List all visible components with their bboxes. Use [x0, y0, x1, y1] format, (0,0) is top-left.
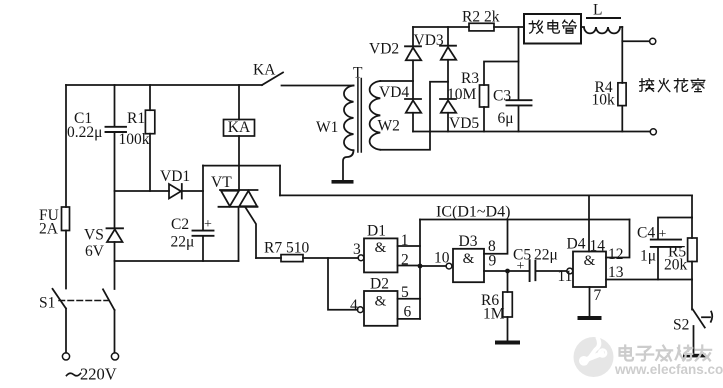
svg-text:+: +: [517, 259, 525, 274]
diode VD1 triangle: [169, 184, 181, 199]
S1 link dashed: [59, 300, 108, 302]
wire R7 to pin3: [303, 257, 358, 259]
wire triac cathode down: [238, 207, 240, 261]
wire KA coil top: [238, 85, 240, 120]
wire pin14: [588, 195, 590, 251]
wire pin9: [484, 270, 508, 272]
svg-text:7: 7: [594, 287, 602, 304]
wire to S2: [691, 280, 693, 310]
svg-text:6: 6: [404, 303, 412, 320]
capacitor C4 plates: [651, 240, 681, 247]
zener VS bar: [107, 227, 124, 229]
diode VD2 triangle: [406, 48, 421, 61]
svg-text:D4: D4: [567, 236, 586, 253]
junction dot pin2: [418, 264, 423, 269]
bubble pin11: [567, 268, 573, 274]
svg-text:L: L: [593, 2, 602, 19]
ground pin7 bar: [578, 316, 602, 320]
switch S2 blade: [693, 310, 705, 328]
winding W2: [370, 81, 381, 150]
svg-text:T: T: [353, 65, 363, 82]
diode VD5 triangle: [441, 100, 456, 112]
wire IC rail: [420, 219, 630, 221]
svg-text:R7 510: R7 510: [264, 240, 309, 257]
svg-text:VD5: VD5: [449, 115, 479, 132]
bubble pin3: [358, 255, 364, 261]
svg-text:www.elecfans.com: www.elecfans.com: [614, 362, 723, 377]
svg-text:&: &: [375, 240, 387, 256]
switch S2 tick: [702, 312, 712, 322]
svg-text:9: 9: [489, 253, 497, 270]
diode VD4 triangle: [406, 100, 421, 112]
wire R5 bottom: [691, 262, 693, 280]
wire VD2-VD4: [412, 60, 414, 99]
capacitor C1 plates: [106, 127, 127, 132]
inductor L core bar: [587, 17, 620, 19]
bubble pin10: [446, 263, 452, 269]
wire S2 bottom: [693, 326, 695, 354]
terminal circle output bottom: [650, 129, 656, 135]
svg-text:1M: 1M: [483, 306, 505, 323]
wire W2 top to bridge: [380, 80, 413, 82]
svg-text:VD1: VD1: [160, 168, 190, 185]
gate D2 box: [364, 291, 398, 326]
svg-text:KA: KA: [253, 62, 276, 79]
wire gate bracket vertical: [419, 220, 421, 319]
diode VD5 bar: [440, 98, 456, 100]
wire L to R4 column: [621, 27, 623, 83]
svg-text:14: 14: [590, 238, 606, 255]
svg-text:12: 12: [608, 246, 624, 263]
wire C2 bottom: [202, 236, 204, 261]
svg-text:11: 11: [558, 268, 573, 285]
diode VD3 bar: [440, 45, 456, 47]
svg-text:VD3: VD3: [414, 32, 444, 49]
resistor R2 body: [469, 23, 494, 31]
wire long supply rail: [280, 194, 692, 196]
bubble pin4: [357, 307, 363, 313]
wire R4 bottom: [621, 106, 623, 132]
svg-text:D1: D1: [367, 223, 386, 240]
switch S1 left blade: [53, 289, 67, 309]
discharge tube box: [524, 14, 581, 44]
transformer T core: [358, 79, 361, 153]
wire S1 left bottom: [65, 309, 67, 353]
wire right drop to long rail: [279, 166, 281, 196]
wire pin1 stub: [398, 245, 421, 247]
wire R1 column top: [149, 85, 151, 110]
svg-text:1μ: 1μ: [640, 248, 656, 265]
wire to C5: [508, 270, 530, 272]
svg-text:22μ: 22μ: [171, 234, 195, 251]
wire triac gate: [246, 208, 257, 259]
wire bridge left column: [412, 27, 414, 46]
svg-text:R1: R1: [127, 110, 145, 127]
diode VD2 bar: [405, 45, 421, 47]
resistor R4 body: [618, 83, 626, 106]
svg-text:10k: 10k: [592, 92, 616, 109]
svg-text:C4: C4: [637, 225, 655, 242]
wire C1 to VD1 line: [114, 132, 116, 228]
fuse FU1 body: [62, 207, 70, 231]
wire pin5 stub: [398, 298, 421, 300]
CJK: discharge tube 放电管: [529, 21, 542, 34]
svg-text:VD4: VD4: [379, 84, 409, 101]
diode VD4 bar: [405, 98, 421, 100]
svg-text:S1: S1: [39, 295, 55, 312]
wire bridge right column: [447, 27, 449, 46]
svg-text:&: &: [463, 251, 475, 267]
svg-text:S2: S2: [673, 317, 689, 334]
wire junction down to pin4: [328, 258, 358, 310]
capacitor C2 plates: [193, 231, 214, 236]
wire KA contact right: [282, 85, 354, 87]
svg-text:100k: 100k: [119, 131, 150, 148]
switch KA blade: [262, 73, 283, 86]
svg-text:R3: R3: [461, 70, 479, 87]
wire W2 bottom to bridge: [380, 82, 448, 150]
svg-text:5: 5: [401, 284, 409, 301]
svg-text:10: 10: [434, 250, 450, 267]
gate D1 box: [364, 238, 398, 272]
wire VD3-VD5: [447, 60, 449, 99]
wire VT top horizontal: [203, 165, 280, 167]
capacitor C3 plates: [507, 100, 532, 105]
capacitor C5 plates: [530, 260, 536, 281]
resistor R1 body: [145, 110, 154, 134]
svg-text:13: 13: [608, 264, 624, 281]
wire R3 top link: [484, 62, 519, 86]
relay coil KA box: [224, 120, 255, 137]
svg-text:6μ: 6μ: [498, 110, 514, 127]
wire VD5 to bottom rail: [447, 113, 449, 132]
svg-text:VS: VS: [84, 227, 104, 244]
wire gate to R7: [256, 257, 281, 259]
svg-text:W2: W2: [378, 118, 400, 135]
wire VT left column: [202, 166, 204, 231]
wire R6 bottom: [507, 317, 509, 341]
switch S1 right blade: [103, 289, 115, 310]
resistor R5 body: [688, 238, 697, 262]
triac VT right triangle: [239, 191, 257, 206]
CJK: connect spark plug 接火花塞: [640, 79, 654, 91]
diode VD1 bar: [181, 184, 183, 199]
gate D3 box: [453, 249, 484, 282]
svg-text:IC(D1~D4): IC(D1~D4): [436, 204, 510, 221]
svg-text:R2 2k: R2 2k: [462, 9, 500, 26]
svg-text:2: 2: [401, 252, 409, 269]
svg-text:C2: C2: [171, 216, 189, 233]
svg-text:220V: 220V: [80, 365, 117, 384]
svg-text:VT: VT: [211, 174, 232, 191]
svg-text:C3: C3: [493, 88, 511, 105]
wire pin12: [606, 220, 630, 258]
wire R3 bottom: [483, 107, 485, 132]
svg-text:20k: 20k: [664, 257, 688, 274]
wire C4 bottom: [657, 247, 659, 279]
svg-text:&: &: [375, 294, 387, 310]
wire KA coil to triac: [238, 136, 240, 190]
junction dot pin9: [505, 269, 510, 274]
svg-text:10M: 10M: [447, 86, 477, 103]
resistor R6 body: [503, 292, 513, 317]
wire C5 to pin11: [536, 270, 567, 272]
wire bottom bridge rail: [413, 131, 650, 133]
wire VD1 line left: [115, 190, 170, 192]
wire R5 top: [691, 218, 693, 239]
svg-text:3: 3: [353, 241, 361, 258]
wire pin13 line: [606, 279, 692, 281]
wire bottom rail left: [115, 260, 239, 262]
svg-text:1: 1: [401, 232, 409, 249]
winding W1: [344, 86, 354, 151]
svg-text:D2: D2: [370, 276, 389, 293]
terminal circle output top: [650, 38, 656, 44]
wire top output: [622, 40, 649, 42]
triac VT left triangle: [221, 191, 239, 207]
watermark CJK 电子发烧友: [620, 345, 712, 360]
gate D4 box: [573, 252, 606, 288]
wire C3 bottom: [518, 106, 520, 132]
svg-text:6V: 6V: [85, 243, 105, 260]
svg-text:+: +: [204, 217, 212, 232]
wire S1 right bottom: [114, 310, 116, 353]
triac VT bars: [219, 190, 258, 207]
svg-text:2A: 2A: [39, 221, 59, 238]
wire VS to S1: [114, 242, 116, 289]
wire left rail lower: [65, 231, 67, 289]
wire W1 bottom to ground: [343, 150, 354, 180]
wire top rail left section: [66, 84, 262, 86]
wire C4 top link: [658, 218, 692, 240]
diode VD3 triangle: [441, 47, 456, 60]
resistor R7 body: [281, 255, 303, 262]
wire pin2 stub: [398, 265, 421, 267]
svg-text:&: &: [584, 253, 596, 269]
wire pin8: [484, 220, 508, 254]
wire to pin10: [420, 265, 446, 267]
wire VD1 to VT column: [182, 190, 203, 192]
resistor R3 body: [480, 85, 489, 107]
svg-text:22μ: 22μ: [534, 247, 558, 264]
wire pin7: [589, 287, 591, 316]
wire R6 top: [507, 271, 509, 292]
wire C1 column top: [114, 85, 116, 126]
wire bridge top rail: [413, 26, 469, 28]
svg-text:+: +: [659, 227, 667, 242]
ground R6 bar: [495, 341, 520, 345]
wire C3 branch top: [518, 27, 520, 100]
svg-text:0.22μ: 0.22μ: [67, 124, 102, 141]
terminal circle S1 left: [62, 353, 69, 360]
svg-text:W1: W1: [316, 119, 338, 136]
ground W1 bar: [332, 180, 354, 184]
zener VS triangle: [107, 229, 123, 242]
terminal circle S1 right: [111, 353, 118, 360]
watermark logo: [574, 337, 614, 377]
wire R2 to tube box: [494, 26, 524, 28]
wire pin6 stub: [398, 318, 421, 320]
wire left rail: [65, 85, 67, 207]
wire R1 bottom: [149, 134, 151, 191]
svg-text:KA: KA: [228, 119, 251, 136]
ground S2 bar: [683, 354, 706, 358]
svg-text:VD2: VD2: [369, 41, 399, 58]
svg-text:D3: D3: [459, 233, 478, 250]
svg-text:4: 4: [350, 297, 358, 314]
wire rail corner down: [691, 195, 693, 217]
wire VD4 to bottom rail: [412, 113, 414, 132]
inductor L coil: [581, 27, 622, 33]
